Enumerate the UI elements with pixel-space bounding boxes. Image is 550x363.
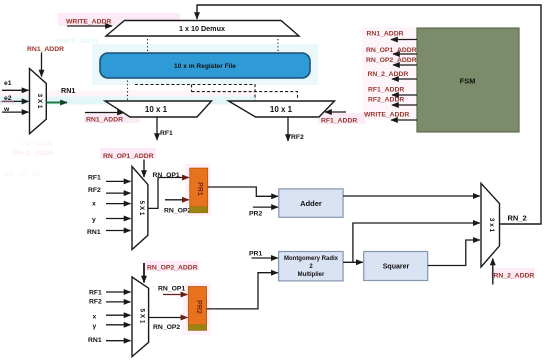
svg-text:10 x 1: 10 x 1 bbox=[270, 105, 293, 114]
wire w input bbox=[2, 106, 29, 113]
FSM U2 bbox=[417, 28, 519, 132]
wire WRITE_ADDR from FSM bbox=[364, 112, 417, 121]
wire multiplier M6 output to squarer S1 bbox=[343, 261, 363, 263]
svg-text:RN1_ADDR: RN1_ADDR bbox=[86, 117, 123, 124]
svg-text:RN_OP2: RN_OP2 bbox=[153, 324, 180, 331]
svg-text:3 X 1: 3 X 1 bbox=[36, 94, 43, 109]
svg-text:5 X 1: 5 X 1 bbox=[138, 201, 145, 216]
svg-text:RN1_ADDR: RN1_ADDR bbox=[367, 31, 404, 38]
svg-text:RN_2_ADDR: RN_2_ADDR bbox=[368, 71, 409, 78]
wire x input to mux M5 bbox=[93, 313, 131, 320]
svg-text:Adder: Adder bbox=[300, 199, 322, 208]
svg-text:RF2_ADDR: RF2_ADDR bbox=[368, 96, 404, 103]
wire RF1_ADDR from FSM bbox=[368, 87, 417, 96]
svg-text:Montgomery Radix: Montgomery Radix bbox=[284, 256, 339, 262]
wire RF2 input to mux M4 bbox=[88, 187, 131, 194]
wire RF1_ADDR into mux M3 bbox=[321, 112, 357, 125]
wire RF1 output of mux M2 bbox=[157, 117, 173, 140]
svg-text:RF2: RF2 bbox=[88, 187, 101, 194]
svg-text:RF2: RF2 bbox=[291, 134, 304, 141]
svg-text:FSM: FSM bbox=[460, 77, 476, 86]
mux M5 "5 X 1" lower bbox=[132, 277, 149, 357]
svg-text:RN_2_ADDR: RN_2_ADDR bbox=[13, 150, 54, 157]
mux M1 "3 X 1" left input mux bbox=[30, 69, 47, 134]
wire PR1 into multiplier M6 bbox=[249, 251, 278, 259]
mux M4 "5 X 1" upper bbox=[132, 167, 148, 250]
svg-text:x: x bbox=[92, 200, 96, 207]
wire RF2 input to mux M5 bbox=[89, 299, 131, 306]
svg-text:Squarer: Squarer bbox=[383, 264, 410, 271]
svg-text:PR2: PR2 bbox=[195, 300, 202, 314]
wire RN1 input to mux M4 bbox=[87, 229, 131, 236]
svg-text:y: y bbox=[92, 217, 96, 224]
wire RN1 input to mux M5 bbox=[88, 337, 131, 344]
svg-text:PR1: PR1 bbox=[196, 182, 203, 196]
svg-text:T1_ADDR: T1_ADDR bbox=[22, 141, 53, 148]
wire RN1 output of mux M1 (green) bbox=[47, 86, 76, 103]
wire RN_OP1 into register PR2 bbox=[158, 286, 187, 295]
wire RF2_ADDR from FSM bbox=[368, 96, 417, 105]
wire e1 input bbox=[2, 80, 29, 90]
svg-text:RN_OP2_ADDR: RN_OP2_ADDR bbox=[366, 57, 417, 64]
wire RN1_ADDR into mux M1 bbox=[27, 46, 64, 77]
svg-text:RN1: RN1 bbox=[88, 337, 102, 344]
wire RN_OP2_ADDR into mux M5 bbox=[144, 263, 198, 283]
wire PR2 into adder A1 bbox=[249, 207, 278, 217]
wire RN_OP1 from mux M4 to register PR1 bbox=[148, 172, 189, 208]
squarer S1 bbox=[364, 252, 428, 281]
svg-text:10 x 1: 10 x 1 bbox=[145, 105, 168, 114]
wire RF2 output of mux M3 bbox=[288, 117, 304, 141]
svg-text:RN_OP2: RN_OP2 bbox=[164, 208, 191, 215]
svg-text:RF1_ADDR: RF1_ADDR bbox=[321, 118, 357, 125]
svg-text:10 x m Register File: 10 x m Register File bbox=[174, 63, 236, 70]
svg-text:RN_OP1_ADDR: RN_OP1_ADDR bbox=[366, 47, 417, 54]
mux M3 "10 x 1" right bbox=[229, 101, 335, 117]
svg-text:3 x 1: 3 x 1 bbox=[488, 218, 495, 233]
wire dashed bus register file to mux M2 bbox=[128, 81, 256, 101]
multiplier M6 "Montgomery Radix 2 Multiplier" bbox=[279, 252, 344, 281]
wire RN_OP2_ADDR from FSM bbox=[366, 57, 417, 65]
svg-text:1 x 10 Demux: 1 x 10 Demux bbox=[179, 24, 225, 33]
svg-text:e1: e1 bbox=[4, 80, 12, 87]
wire squarer S1 output to mux M7 bbox=[428, 240, 480, 266]
svg-text:RN_OP1: RN_OP1 bbox=[153, 172, 180, 179]
wire dotted demux to register file (right) bbox=[277, 39, 279, 52]
wire RN_2_ADDR into mux M7 bbox=[493, 259, 535, 285]
svg-text:y: y bbox=[93, 323, 97, 330]
svg-text:RN_2_ADDR: RN_2_ADDR bbox=[494, 273, 535, 280]
svg-text:PR1: PR1 bbox=[249, 251, 262, 258]
wire RF1 input to mux M5 bbox=[89, 289, 131, 296]
svg-text:RN_2: RN_2 bbox=[508, 214, 527, 223]
wire multiplier M6 output branch to mux M7 bbox=[353, 223, 480, 262]
wire y input to mux M5 bbox=[93, 323, 131, 330]
svg-text:RF1: RF1 bbox=[160, 130, 173, 137]
svg-text:w: w bbox=[3, 106, 10, 113]
svg-text:RN_OP_AD: RN_OP_AD bbox=[4, 171, 41, 178]
svg-text:RN_OP1_ADDR: RN_OP1_ADDR bbox=[103, 153, 154, 160]
wire PR1 output to adder A1 bbox=[208, 187, 278, 196]
wire RN1_ADDR from FSM bbox=[367, 31, 418, 40]
wire dotted demux to register file (left) bbox=[147, 39, 149, 52]
svg-text:RN1: RN1 bbox=[61, 86, 75, 95]
wire RN_2 feedback from mux M4 output to demux input bbox=[197, 5, 541, 224]
svg-text:WRITE_ADDR: WRITE_ADDR bbox=[55, 38, 99, 45]
mux M2 "10 x 1" left bbox=[105, 101, 212, 117]
svg-text:x: x bbox=[93, 313, 97, 320]
svg-text:WRITE_ADDR: WRITE_ADDR bbox=[66, 19, 111, 26]
register PR2 bbox=[188, 287, 206, 331]
wire RN_OP2 into register PR1 bbox=[164, 200, 191, 215]
wire PR2 output to multiplier M6 bbox=[207, 273, 278, 309]
wire adder A1 output to mux M7 bbox=[343, 195, 480, 197]
svg-text:RF1_ADDR: RF1_ADDR bbox=[368, 87, 404, 94]
wire RN_2_ADDR from FSM bbox=[368, 71, 418, 79]
svg-text:5 X 1: 5 X 1 bbox=[139, 309, 146, 324]
wire dashed bus register file to mux M3 bbox=[192, 85, 298, 101]
adder A1 bbox=[279, 189, 343, 217]
wire e2 input bbox=[0, 95, 29, 102]
register file RF "10 x m Register File" bbox=[100, 53, 310, 78]
svg-text:PR2: PR2 bbox=[249, 211, 262, 218]
svg-text:RF1: RF1 bbox=[89, 289, 102, 296]
svg-text:RF1: RF1 bbox=[88, 175, 101, 182]
svg-text:RN1: RN1 bbox=[87, 229, 101, 236]
register PR1 bbox=[190, 168, 208, 212]
svg-text:e2: e2 bbox=[4, 95, 12, 102]
svg-text:RN1_ADDR: RN1_ADDR bbox=[27, 46, 64, 53]
wire RN_OP2 from mux M5 to register PR2 bbox=[149, 318, 188, 332]
svg-text:RF2: RF2 bbox=[89, 299, 102, 306]
wire RF1 input to mux M4 bbox=[88, 175, 131, 182]
mux M7 "3 x 1" output mux bbox=[481, 183, 500, 267]
svg-text:RN_OP1: RN_OP1 bbox=[158, 286, 185, 293]
wire x input to mux M4 bbox=[92, 200, 131, 207]
svg-text:WRITE_ADDR: WRITE_ADDR bbox=[364, 112, 409, 119]
wire y input to mux M4 bbox=[92, 217, 131, 224]
wire RN_OP1_ADDR from FSM bbox=[366, 47, 417, 54]
svg-text:Multiplier: Multiplier bbox=[298, 272, 325, 278]
wire RN_OP1_ADDR into mux M4 bbox=[103, 153, 154, 177]
svg-text:RN_OP2_ADDR: RN_OP2_ADDR bbox=[147, 265, 198, 272]
wire WRITE_ADDR into demux bbox=[66, 19, 112, 27]
wire RN1_ADDR into mux M2 bbox=[85, 113, 124, 124]
demux U1 "1 x 10 Demux" bbox=[106, 21, 299, 37]
